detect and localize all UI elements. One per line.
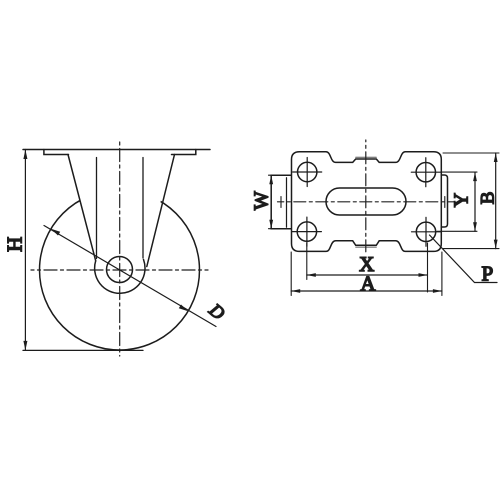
B extension line bottom	[443, 248, 499, 250]
fork outer edge right	[147, 155, 175, 267]
B arrow bottom	[494, 240, 498, 249]
top plate left lip	[44, 150, 69, 155]
svg-text:P: P	[481, 262, 493, 286]
D arrow upper-left	[51, 229, 60, 236]
bolt hole bottom-right	[412, 217, 441, 246]
X dimension line	[307, 274, 428, 276]
plate vertical centerline	[365, 140, 367, 252]
Y extension line top	[441, 171, 477, 173]
D arrow lower-right	[179, 304, 188, 311]
A dimension line	[291, 290, 442, 292]
W extension line bottom	[269, 228, 292, 230]
top plate right lip	[172, 150, 196, 155]
top plate (edge view) top line, extends to H extension	[23, 149, 210, 151]
A extension line right	[441, 252, 443, 296]
Y dimension line	[474, 172, 476, 231]
H arrow bottom	[23, 341, 27, 351]
axle hub circle	[107, 257, 133, 283]
B arrow top	[494, 153, 498, 162]
Y extension line bottom	[437, 230, 477, 232]
H arrow top	[23, 150, 27, 160]
fork yoke bottom arc	[95, 260, 145, 294]
central slot	[326, 188, 406, 215]
X arrow right	[419, 273, 428, 277]
H dimension bottom extension line (wheel tangent)	[23, 349, 143, 351]
svg-text:H: H	[3, 237, 27, 252]
W extension line top	[269, 174, 292, 176]
wheel protrusion tab right (top view)	[441, 175, 447, 227]
fork inner edge left	[96, 158, 98, 259]
svg-text:A: A	[360, 271, 376, 295]
svg-text:B: B	[478, 192, 499, 205]
wheel (side view)	[40, 190, 200, 350]
wheel protrusion tab left (top view)	[271, 175, 291, 229]
A arrow left	[291, 289, 300, 293]
wheel tab inner line	[286, 178, 288, 228]
wheel horizontal centerline	[31, 269, 208, 271]
A arrow right	[433, 289, 442, 293]
svg-text:W: W	[251, 191, 273, 210]
A extension line left	[290, 252, 292, 296]
svg-text:Y: Y	[451, 193, 473, 207]
P leader line	[430, 235, 498, 283]
wheel vertical centerline	[119, 142, 121, 356]
X extension line left	[306, 243, 308, 280]
bolt hole top-left	[293, 158, 322, 187]
fork outer edge left	[68, 155, 96, 261]
mounting plate outline (top view)	[292, 152, 442, 252]
B dimension line	[495, 153, 497, 249]
bolt hole bottom-left	[292, 217, 321, 246]
plate horizontal centerline	[278, 201, 456, 203]
bolt hole top-right	[411, 158, 440, 187]
W arrow bottom	[269, 220, 273, 229]
Y arrow top	[473, 172, 477, 181]
top tab second line	[356, 156, 377, 158]
H dimension line	[24, 150, 26, 351]
Y arrow bottom	[473, 222, 477, 231]
axle tick right	[444, 197, 446, 208]
X extension line right	[427, 243, 429, 292]
bottom tab second line	[356, 246, 377, 248]
D diameter dimension line	[44, 226, 216, 327]
X arrow left	[307, 273, 316, 277]
fork inner edge right	[142, 158, 144, 259]
axle tick left	[280, 197, 282, 208]
B extension line top	[443, 152, 499, 154]
fork body (white fill occluding wheel top)	[68, 155, 175, 294]
W arrow top	[269, 175, 273, 184]
